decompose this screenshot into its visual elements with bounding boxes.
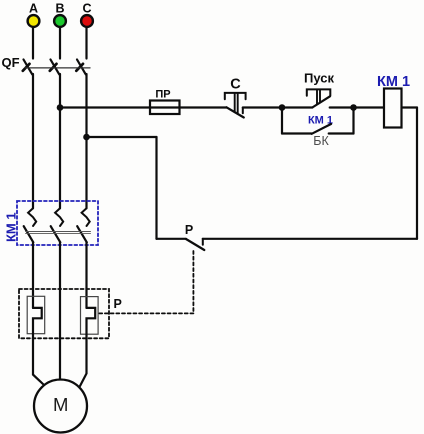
wire to phase C: [87, 136, 157, 138]
thermal contact P left lead: [157, 238, 187, 240]
wire phase A thermal to motor: [33, 335, 44, 385]
thermal relay box (dashed): [19, 289, 109, 338]
junction dot on phase B (control tap): [57, 104, 64, 111]
breaker QF pole B blade: [51, 60, 60, 75]
wire left riser up: [155, 137, 157, 239]
motor M circle: [34, 380, 87, 433]
contactor KM1 main contact B zigzag: [55, 208, 63, 226]
contactor KM1 main contact A zigzag: [28, 208, 36, 226]
coil KM1 body: [384, 89, 402, 128]
svg-text:А: А: [29, 2, 38, 16]
start button Pusk blade (NO): [312, 96, 330, 107]
svg-text:С: С: [82, 2, 91, 16]
wire phase B KM1 to motor: [59, 242, 61, 379]
thermal relay heater C jog: [87, 308, 96, 335]
thermal contact P seat tick: [202, 239, 204, 245]
terminal lamp C (red): [81, 15, 93, 27]
stop button C actuator bracket: [225, 93, 246, 99]
thermal contact P blade (NC): [186, 239, 204, 250]
wire phase C QF to KM1 contact: [85, 74, 87, 208]
aux contact KM1 left lead: [282, 132, 312, 134]
terminal lamp A (yellow): [28, 15, 40, 27]
wire control line B to fuse: [60, 106, 150, 108]
wire phase A lamp to QF: [32, 28, 34, 58]
svg-text:М: М: [53, 394, 68, 415]
wire bottom return: [203, 238, 417, 240]
stop button C seat tick: [242, 108, 244, 114]
wire phase A KM1 to thermal relay: [32, 242, 34, 308]
aux contact KM1 right lead: [329, 132, 354, 134]
contactor KM1 linkage lines: [26, 231, 91, 233]
junction dot right of start button: [350, 104, 357, 111]
breaker QF pole B cross tick: [50, 64, 57, 71]
wire phase A QF to KM1 contact: [32, 74, 34, 208]
stop button C actuator stem: [234, 93, 236, 112]
svg-text:С: С: [230, 77, 241, 93]
wire phase B QF to KM1 contact: [59, 74, 61, 208]
svg-text:ПР: ПР: [155, 89, 170, 101]
aux contact branch left riser: [281, 108, 283, 134]
wire phase C thermal to motor: [80, 335, 87, 387]
svg-text:В: В: [55, 2, 64, 16]
thermal relay heater A body: [27, 296, 45, 333]
svg-text:QF: QF: [2, 55, 20, 70]
contactor KM1 main contact C zigzag: [82, 208, 90, 226]
svg-text:БК: БК: [313, 134, 329, 148]
junction dot left of start button: [279, 104, 286, 111]
contactor KM1 main contact A blade: [24, 226, 34, 242]
contactor KM1 main contact B blade: [51, 226, 61, 242]
dashed link thermal relay to contact P: [192, 251, 194, 313]
breaker QF pole A cross tick: [23, 64, 30, 71]
contactor KM1 main box (dashed): [17, 201, 98, 245]
svg-text:КМ 1: КМ 1: [4, 212, 19, 242]
start button Pusk actuator bracket: [307, 89, 331, 95]
breaker QF pole A blade: [24, 60, 33, 75]
aux contact KM1 blade (NO): [312, 124, 331, 134]
thermal relay heater A jog: [33, 308, 42, 335]
fuse PR wire through: [150, 106, 227, 108]
wire phase B lamp to QF: [59, 28, 61, 58]
start button Pusk left lead: [282, 106, 312, 108]
wire coil to right riser: [402, 106, 418, 108]
wire right riser down: [416, 108, 418, 239]
junction dot on phase C: [83, 134, 90, 141]
wire to coil: [354, 106, 385, 108]
breaker QF pole C blade: [77, 60, 86, 75]
aux contact branch right riser: [352, 108, 354, 134]
wire phase C lamp to QF: [85, 28, 87, 58]
wire phase C KM1 to thermal relay: [85, 242, 87, 308]
start button Pusk actuator stem: [316, 89, 318, 104]
start button Pusk right lead: [330, 106, 354, 108]
fuse PR body: [150, 101, 180, 115]
wire C button to parallel branch: [243, 106, 282, 108]
stop button C blade (NC): [227, 107, 244, 117]
contactor KM1 main contact C blade: [77, 226, 87, 242]
breaker QF linkage line: [25, 67, 90, 69]
svg-text:Пуск: Пуск: [304, 71, 334, 86]
thermal relay heater C body: [81, 297, 99, 335]
breaker QF pole C cross tick: [76, 64, 83, 71]
terminal lamp B (green): [54, 15, 66, 27]
svg-text:Р: Р: [185, 223, 193, 237]
svg-text:Р: Р: [114, 297, 122, 311]
